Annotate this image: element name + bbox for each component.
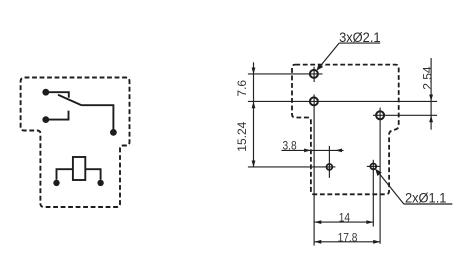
17.8 dimension line	[314, 241, 380, 243]
hole H5 2xO1.1	[370, 164, 376, 170]
contact terminal NC dot	[42, 89, 49, 96]
arrow up below H3 row	[429, 115, 433, 122]
svg-text:17.8: 17.8	[338, 232, 358, 245]
coil body	[73, 157, 85, 180]
text 17.8	[338, 232, 358, 245]
contact terminal NO dot	[42, 116, 49, 123]
arrow down at coil row	[252, 161, 256, 168]
label 3xO2.1 arrowhead	[317, 63, 324, 70]
svg-text:2xØ1.1: 2xØ1.1	[405, 190, 446, 206]
H5 short horizontal crosshair	[367, 165, 380, 167]
svg-text:7.6: 7.6	[235, 80, 249, 97]
extension line row 1	[248, 73, 323, 75]
14 dimension line	[314, 221, 373, 223]
wire common	[82, 105, 114, 129]
switch blade	[58, 95, 82, 105]
svg-text:15.24: 15.24	[235, 121, 249, 151]
hole H4 2xO1.1	[327, 164, 333, 170]
coil terminal dot left	[53, 180, 59, 186]
3.8 right arrow (points left)	[335, 149, 342, 153]
label 3xO2.1 leader underline	[318, 43, 381, 69]
extension line row H3 (to 2.54 dim)	[373, 114, 437, 116]
text 7.6 (rotated)	[235, 80, 249, 97]
text 15.24 (rotated)	[235, 121, 249, 151]
arrow up below row2	[252, 102, 256, 109]
svg-text:3.8: 3.8	[283, 140, 297, 153]
hole H1 3xO2.1	[310, 70, 318, 78]
arrow down above row2	[429, 95, 433, 102]
common terminal dot	[110, 129, 117, 136]
coil terminal dot right	[97, 180, 103, 186]
relay body outline (left figure, dashed)	[21, 78, 130, 208]
label 2xO1.1 leader underline	[376, 170, 452, 204]
wire NC contact	[46, 92, 69, 98]
PCB footprint outline (right figure, dashed)	[292, 65, 399, 195]
3.8 dimension line	[282, 149, 344, 151]
centerline column H3 (17.8 dim right ext)	[379, 108, 381, 244]
coil right wire	[85, 169, 100, 180]
label 2xO1.1 arrowhead	[375, 169, 382, 176]
17.8 left arrow	[315, 240, 322, 244]
17.8 right arrow	[373, 240, 380, 244]
centerline column H5 (14 dim right ext)	[372, 160, 374, 227]
centerline column through H1/H2 down to bottom dims	[313, 67, 315, 246]
label 3xO2.1 text	[339, 29, 380, 45]
hole H3	[376, 111, 384, 119]
svg-text:2.54: 2.54	[420, 66, 434, 90]
3.8 left arrow (points right)	[304, 149, 311, 153]
centerline column H4	[328, 146, 330, 178]
wire NO contact	[46, 111, 69, 120]
text 14	[339, 212, 350, 225]
arrow down at row1	[252, 68, 256, 75]
left dimension line (7.6 / 15.24)	[253, 62, 255, 167]
extension line row 2 (long, to 2.54 dim)	[248, 100, 437, 102]
hole H2	[310, 97, 318, 105]
extension line row coil holes (15.24)	[248, 166, 336, 168]
svg-text:14: 14	[339, 212, 350, 225]
coil left wire	[57, 169, 73, 180]
14 left arrow	[315, 220, 322, 224]
text 2.54 (rotated)	[420, 66, 434, 90]
text 3.8	[283, 140, 297, 153]
14 right arrow	[366, 220, 373, 224]
svg-text:3xØ2.1: 3xØ2.1	[339, 29, 380, 45]
label 2xO1.1 text	[405, 190, 446, 206]
2.54 dimension line	[430, 58, 432, 130]
